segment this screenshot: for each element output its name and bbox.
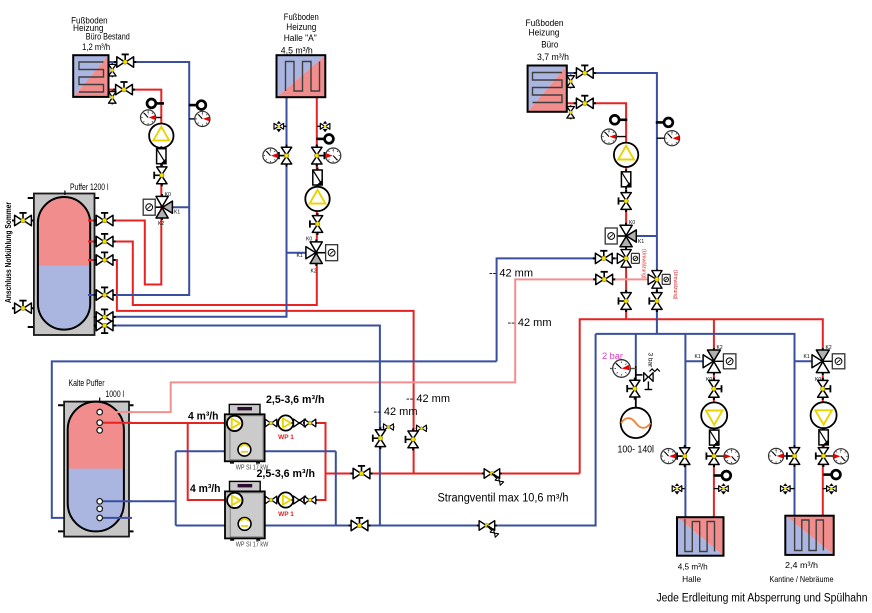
- wire: red header to branches: [580, 319, 823, 515]
- circuit2 red drain mini valve: [317, 121, 330, 132]
- branch2 return valve with thermometer: [769, 445, 800, 467]
- wire: blue header: [596, 334, 795, 516]
- circuit1 air vent mini valve lower: [109, 90, 117, 104]
- wire: expansion vessel black drop: [635, 366, 637, 408]
- branch1 pump: [701, 402, 727, 428]
- wire: WP cold ring: [176, 451, 336, 525]
- cold main Strangventil: [477, 521, 499, 538]
- svg-text:2,5-3,6 m³/h: 2,5-3,6 m³/h: [266, 394, 325, 406]
- wire: long blue return to cold buffer bottom port: [52, 361, 497, 518]
- branch2 three-way valve K1/K2/K0 with actuator: [804, 345, 845, 383]
- svg-text:1,2 m³/h: 1,2 m³/h: [82, 42, 110, 53]
- cold main shut-off valve: [349, 518, 371, 531]
- circuit3 filter: [621, 169, 630, 189]
- floor heating block circuit3 (Buero): [528, 66, 567, 112]
- wire: red from cold buffer to WP1: [103, 422, 236, 424]
- WP1 outlet valve: [264, 419, 278, 427]
- svg-text:(Umwälzung): (Umwälzung): [672, 270, 678, 300]
- circuit1 red line valve: [113, 82, 135, 95]
- circuit2 blue valve with thermometer: [263, 145, 292, 167]
- wire: red branch down to WP2: [188, 423, 236, 500]
- circuit3 air vent mini valve lower: [567, 105, 575, 119]
- tank left valve lower with cap: [12, 301, 34, 314]
- circuit1 line valve: [154, 164, 167, 186]
- svg-text:K1: K1: [297, 253, 303, 259]
- svg-text:(Umwälzung): (Umwälzung): [641, 249, 647, 279]
- WP1 circulation pump: [278, 415, 293, 430]
- circuit1 riser thermometer: [189, 111, 210, 126]
- circuit3 riser thermometer blue: [657, 131, 680, 146]
- branch1 return valve with thermometer: [661, 445, 690, 467]
- svg-text:2,5-3,6 m³/h: 2,5-3,6 m³/h: [257, 468, 316, 480]
- svg-text:WP 1: WP 1: [278, 511, 294, 518]
- wire: branch1 K1 blue stub: [685, 360, 706, 362]
- svg-text:3 bar: 3 bar: [647, 353, 654, 369]
- floor heating block circuit2 (Halle A): [277, 55, 326, 97]
- label: Puffer 1200 l: [65, 182, 109, 195]
- wire: circuit3 K1 blue stub: [632, 235, 657, 237]
- svg-text:4,5 m³/h: 4,5 m³/h: [281, 46, 313, 57]
- svg-text:Kantine / Nebräume: Kantine / Nebräume: [770, 574, 834, 584]
- red riser valve above header: [619, 290, 632, 312]
- branch2 supply valve with thermometer: [816, 445, 849, 467]
- circuit3 pump: [614, 143, 638, 167]
- wire: branch2 K1 blue stub: [795, 360, 817, 362]
- svg-text:-- 42 mm: -- 42 mm: [489, 268, 533, 280]
- WP1 second valve: [303, 419, 317, 427]
- svg-text:K2: K2: [826, 345, 832, 351]
- branch2 fill tap ring: [823, 470, 840, 479]
- svg-text:K1: K1: [695, 354, 701, 360]
- svg-text:K1: K1: [804, 354, 810, 360]
- svg-text:100- 140l: 100- 140l: [618, 445, 655, 456]
- svg-text:4,5 m³/h: 4,5 m³/h: [678, 561, 708, 571]
- svg-text:Jede Erdleitung mit Absperrung: Jede Erdleitung mit Absperrung und Spülh…: [657, 593, 868, 605]
- svg-text:K2: K2: [158, 221, 164, 227]
- svg-text:Puffer 1200 l: Puffer 1200 l: [70, 182, 109, 192]
- svg-text:-- 42 mm: -- 42 mm: [406, 393, 450, 405]
- svg-text:3,7 m³/h: 3,7 m³/h: [537, 52, 569, 63]
- branch1 filter: [710, 428, 719, 448]
- wire: WP2 hot outlet: [264, 474, 326, 501]
- svg-text:Heizung: Heizung: [286, 22, 316, 33]
- wire: WP1 hot outlet: [265, 423, 326, 474]
- blue riser 42mm valve with drain: [373, 424, 395, 449]
- tank left valve upper with cap: [12, 213, 34, 226]
- floor heating block branch1 (Halle): [677, 517, 724, 556]
- circuit3 air vent mini valve upper: [567, 75, 575, 89]
- wire: branch1 red drop: [713, 319, 715, 517]
- svg-text:WP SI 17 kW: WP SI 17 kW: [236, 542, 269, 549]
- svg-text:K1: K1: [638, 239, 644, 245]
- buffer tank Puffer 1200 l: [28, 194, 99, 336]
- safety valve 3 bar: [644, 369, 660, 390]
- tank right valve6: [94, 320, 116, 333]
- svg-text:K2: K2: [717, 345, 723, 351]
- branch1 fill tap ring: [714, 471, 731, 480]
- circuit1 fill tap ring: [147, 99, 164, 108]
- WP2 outlet valve: [264, 496, 278, 504]
- svg-text:Halle: Halle: [682, 574, 701, 584]
- hot main Strangventil: [482, 469, 504, 486]
- circuit2 pump: [305, 187, 329, 211]
- circuit2 red valve with thermometer: [312, 145, 341, 167]
- WP2 second valve: [303, 496, 317, 504]
- wire: pink circulation line to cold buffer top port: [103, 279, 657, 412]
- branch2 supply drain mini valve: [823, 483, 836, 494]
- circuit1 riser drain ring: [189, 101, 206, 110]
- WP2 check valve: [292, 496, 308, 504]
- blue riser valve above header: [649, 290, 662, 312]
- tank right valve5: [94, 309, 116, 322]
- svg-text:Halle "A": Halle "A": [284, 33, 317, 44]
- branch1 valve below K0: [709, 378, 722, 400]
- circuit1 thermometer supply: [141, 110, 162, 125]
- svg-text:K2: K2: [311, 269, 317, 275]
- svg-text:2 bar: 2 bar: [602, 351, 623, 361]
- svg-text:Kalte Puffer: Kalte Puffer: [69, 378, 105, 388]
- branch1 supply valve with thermometer: [706, 445, 739, 467]
- circuit3 thermometer supply: [601, 129, 626, 144]
- pressure gauge 2 bar: [610, 360, 636, 378]
- svg-text:4 m³/h: 4 m³/h: [190, 483, 221, 495]
- tank right valve1: [94, 213, 116, 226]
- branch2 valve below K0: [818, 378, 831, 400]
- svg-text:K0: K0: [629, 220, 635, 226]
- svg-text:4 m³/h: 4 m³/h: [188, 411, 219, 423]
- circuit1 blue line valve: [114, 54, 136, 67]
- expansion vessel isolating valve: [627, 378, 640, 400]
- wire: circuit2 red supply from tank valve2: [95, 97, 317, 305]
- circulation valve on blue feed: [593, 251, 615, 264]
- circuit2 blue drain mini valve: [274, 121, 287, 132]
- svg-text:2,4 m³/h: 2,4 m³/h: [785, 560, 818, 570]
- wire: WP cold return main to header riser: [176, 334, 596, 526]
- svg-text:K0: K0: [165, 192, 171, 198]
- circuit3 blue line valve: [574, 65, 596, 78]
- branch1 supply drain mini valve: [714, 483, 728, 494]
- wire: safety valve stub: [636, 374, 643, 376]
- branch1 return drain mini valve: [672, 483, 685, 494]
- circuit2 fill tap ring: [316, 135, 333, 144]
- branch2 pump: [811, 402, 837, 428]
- circuit1 filter: [157, 146, 166, 166]
- svg-text:Strangventil max 10,6 m³/h: Strangventil max 10,6 m³/h: [438, 493, 569, 505]
- wire: circuit2 K1 blue stub: [287, 252, 309, 254]
- label: Kalte Puffer 1000 l: [69, 378, 125, 402]
- branch2 filter: [819, 427, 828, 447]
- red riser 42mm valve with drain: [406, 425, 428, 450]
- wire: WP hot main to header riser: [326, 473, 580, 475]
- WP1 check valve: [292, 419, 308, 427]
- wire: circuit1 blue return to riser: [95, 62, 190, 295]
- circuit1 air vent mini valve upper: [109, 63, 117, 77]
- branch1 three-way valve K1/K2/K0 with actuator: [695, 345, 736, 383]
- circulation three-way valve upper with actuator: [617, 248, 639, 268]
- svg-text:WP 1: WP 1: [278, 434, 294, 441]
- circuit3 red line valve: [574, 96, 596, 109]
- circuit2 filter: [313, 168, 322, 188]
- expansion vessel 100-140l: [621, 408, 651, 438]
- svg-text:K0: K0: [306, 236, 312, 242]
- svg-text:Büro: Büro: [541, 39, 558, 50]
- circuit3 riser drain ring blue: [656, 118, 673, 127]
- heat pump WP1 (WP SI 17 kW): [225, 404, 265, 463]
- svg-text:K1: K1: [174, 210, 180, 216]
- circuit3 fill tap ring red: [610, 115, 627, 124]
- wire: circuit1 K1 blue stub: [168, 206, 189, 208]
- wire: tank valve3 red to 42mm riser down to WP supply line: [95, 260, 414, 474]
- svg-text:Heizung: Heizung: [529, 27, 560, 38]
- wire: circuit2 blue return: [95, 97, 287, 317]
- circulation valve on pink line: [593, 272, 615, 285]
- hot main shut-off valve: [351, 466, 373, 479]
- circuit2 mixing valve K0/K1/K2 with actuator: [297, 236, 338, 274]
- wire: cold buffer port4 blue stub: [97, 500, 176, 502]
- WP2 circulation pump: [278, 492, 293, 507]
- wire: expansion vessel tap: [635, 334, 637, 366]
- cold buffer tank Kalte Puffer 1000 l: [58, 402, 134, 537]
- floor heating block branch2 (Kantine / Nebraeume): [785, 516, 833, 555]
- wire: circuit1 red supply loop to buffer tank valve1: [95, 90, 162, 285]
- floor heating block circuit1 (Buero Bestand): [73, 55, 108, 97]
- svg-text:1000 l: 1000 l: [106, 389, 125, 399]
- tank right valve2: [94, 234, 116, 247]
- svg-text:-- 42 mm: -- 42 mm: [374, 406, 418, 418]
- wire: circulation blue feed line: [497, 258, 626, 361]
- branch2 return drain mini valve: [781, 483, 795, 494]
- heat pump WP2 (WP SI 17 kW): [225, 481, 265, 540]
- tank right valve3: [94, 252, 116, 265]
- wire: circuit3 blue return drop: [567, 73, 657, 334]
- svg-text:-- 42 mm: -- 42 mm: [508, 317, 552, 329]
- wire: circuit3 red supply drop: [567, 103, 626, 319]
- circuit1 mixing valve K0/K1/K2 with actuator: [143, 192, 180, 227]
- circuit3 mixing valve K0/K1/K2 with actuator: [605, 220, 644, 250]
- svg-text:Anschluss Notkühlung Sommer: Anschluss Notkühlung Sommer: [4, 202, 13, 303]
- circulation three-way valve lower with actuator: [648, 269, 670, 289]
- circuit2 line valve: [310, 213, 323, 235]
- circuit1 pump: [149, 124, 173, 148]
- tank right valve4: [94, 287, 116, 300]
- circuit3 line valve: [619, 190, 632, 212]
- wire: tank valve6 blue to 42mm riser down to WP return: [95, 326, 380, 526]
- wire: branch1 blue drop: [684, 334, 686, 517]
